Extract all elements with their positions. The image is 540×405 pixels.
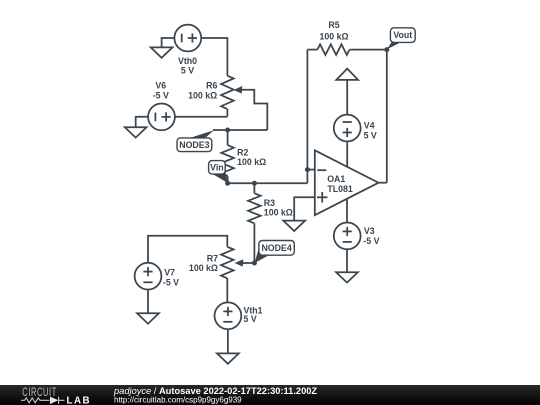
svg-text:100 kΩ: 100 kΩ bbox=[237, 157, 266, 167]
svg-text:-5 V: -5 V bbox=[163, 277, 179, 287]
svg-text:-5 V: -5 V bbox=[153, 90, 169, 100]
svg-text:Vin: Vin bbox=[210, 162, 224, 172]
svg-text:R7: R7 bbox=[207, 254, 218, 264]
svg-text:R5: R5 bbox=[328, 20, 339, 30]
svg-text:OA1: OA1 bbox=[327, 174, 345, 184]
svg-text:100 kΩ: 100 kΩ bbox=[319, 32, 348, 42]
svg-text:TL081: TL081 bbox=[327, 184, 353, 194]
svg-text:100 kΩ: 100 kΩ bbox=[188, 90, 217, 100]
svg-text:NODE3: NODE3 bbox=[179, 140, 209, 150]
svg-text:5 V: 5 V bbox=[244, 314, 257, 324]
svg-text:R6: R6 bbox=[206, 81, 217, 91]
svg-text:Vth0: Vth0 bbox=[178, 56, 197, 66]
svg-text:-5 V: -5 V bbox=[363, 236, 379, 246]
svg-text:5 V: 5 V bbox=[364, 131, 377, 141]
svg-text:V6: V6 bbox=[155, 81, 166, 91]
svg-text:5 V: 5 V bbox=[181, 65, 194, 75]
svg-text:Vout: Vout bbox=[393, 30, 412, 40]
svg-text:100 kΩ: 100 kΩ bbox=[189, 263, 218, 273]
svg-text:100 kΩ: 100 kΩ bbox=[264, 207, 293, 217]
svg-text:V7: V7 bbox=[164, 267, 175, 277]
svg-text:http://circuitlab.com/csp9p9gy: http://circuitlab.com/csp9p9gy6g939 bbox=[114, 395, 242, 404]
svg-text:V3: V3 bbox=[364, 226, 375, 236]
svg-text:NODE4: NODE4 bbox=[261, 243, 291, 253]
svg-text:LAB: LAB bbox=[67, 395, 92, 405]
svg-text:V4: V4 bbox=[364, 121, 375, 131]
